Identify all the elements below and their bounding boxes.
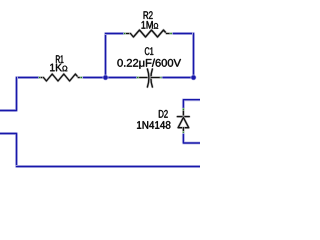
pin R1 right bbox=[78, 76, 81, 79]
diode D2 cathode bar bbox=[177, 115, 189, 118]
label D2 bbox=[159, 110, 168, 118]
wire node A to C1 bbox=[106, 76, 138, 79]
wire right edge to D2 top bbox=[183, 100, 200, 109]
wire D2 bottom to right edge bbox=[183, 134, 200, 143]
value 1Mohm bbox=[142, 21, 159, 29]
pin D2 bottom bbox=[182, 128, 185, 133]
wire R2 right bbox=[173, 32, 193, 35]
wire riser R2 to node B bbox=[192, 34, 195, 78]
wire C1 to node B bbox=[163, 76, 194, 79]
wire input rail to R1 bbox=[17, 76, 40, 79]
wire R2 left bbox=[106, 32, 125, 35]
wire R1 to node A bbox=[84, 76, 106, 79]
wire left drop to edge bbox=[0, 78, 17, 111]
pin R1 left bbox=[40, 76, 42, 79]
label R2 bbox=[144, 11, 153, 19]
resistor R1 bbox=[44, 74, 79, 81]
pin R2 right bbox=[167, 32, 171, 35]
value 1Kohm bbox=[50, 64, 67, 71]
pin C1 left bbox=[138, 76, 141, 79]
wire bottom rail bbox=[17, 165, 201, 168]
pin D2 top bbox=[182, 109, 185, 112]
label C1 bbox=[145, 47, 153, 55]
pin R2 left bbox=[125, 32, 127, 35]
label R1 bbox=[56, 55, 63, 63]
resistor R2 bbox=[131, 30, 167, 37]
wire riser A to R2 bbox=[104, 34, 107, 78]
capacitor C1 bbox=[147, 69, 149, 87]
diode D2 triangle bbox=[178, 117, 189, 127]
value 0.22uF/600V bbox=[117, 59, 181, 69]
pin C1 right bbox=[151, 76, 161, 79]
value 1N4148 bbox=[137, 121, 170, 129]
wire lower left edge stub bbox=[0, 134, 17, 167]
junction node B bbox=[191, 75, 197, 81]
junction node A bbox=[103, 75, 109, 81]
